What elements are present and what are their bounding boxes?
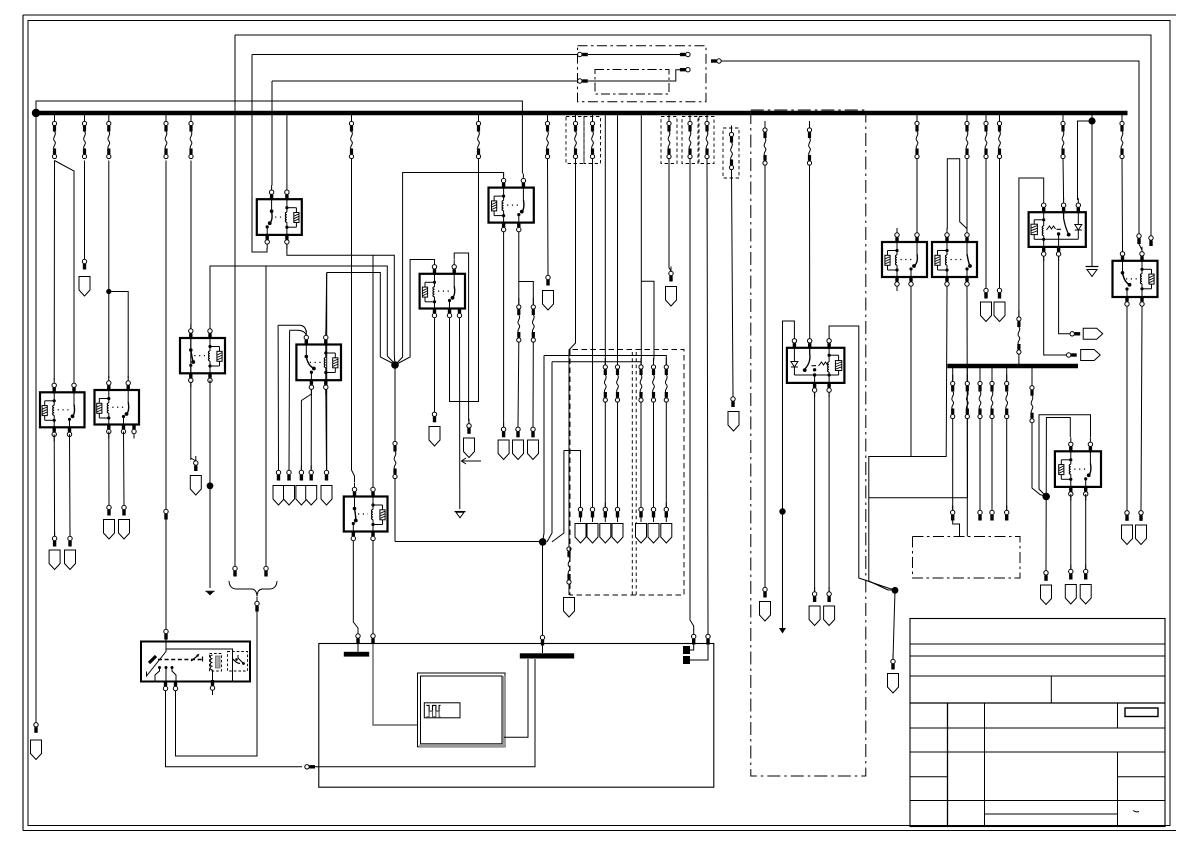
pin above connector SP6b [432,407,436,422]
fuse F17 [664,358,668,402]
connector shield SP5 [528,440,539,460]
connector shield SP12 [273,486,284,506]
connector shield SP7 [543,291,554,311]
wire relay K7 coil from bus via right channel [829,326,895,590]
junction node N2 [539,538,547,546]
outer border frame (no right edge) [23,14,1176,16]
wire W_E jog to relay K12 [1139,244,1142,252]
horizontal pin PR1 [1070,332,1080,336]
wire F13 down to cluster [592,159,594,508]
wire node N4 down to connector [893,590,895,659]
fuse F31 [966,368,968,382]
wire F36 to relay K12 [1121,159,1124,248]
wire from brace to module A1 [176,612,258,757]
wire net H3 bridge [327,273,381,358]
wire net W_E to right side [721,61,1139,234]
connector shield SP17 [564,598,575,618]
wire net W_C drop to relay K1 [271,81,273,186]
connector pin X12 feed [711,59,721,63]
pin above connector SP1 [82,255,86,270]
pin above SP14 [299,466,303,481]
branch wire to relay K3 pin 2 [109,292,128,379]
connector shield SP27 [824,606,835,626]
wire F14 to connector SP17 [568,584,570,595]
junction node N1 [391,361,399,369]
wire node N1 down with fuse F6 [394,365,396,442]
junction node N5 [1042,493,1050,501]
wire relay K14 out with branch [301,389,311,470]
pin above connector SP24c [731,392,735,407]
wire F22 down to connector [764,165,766,587]
wire relay K5 to node N3 and arrow [209,380,211,588]
connector shield SP24b [666,287,677,307]
wire bus drop x=605 [604,115,606,365]
wire tap down to connector SP12 [277,325,279,470]
wire net from node N2 region to F17 [544,356,666,366]
wire inside connector box [588,54,685,56]
splice pin on F4 wire [164,505,168,520]
connector shield SP11 [119,520,130,540]
wire relay K6 out2 to busbar [372,546,374,631]
fuse F29 [1017,310,1021,354]
wire F26 to connector SP29 [985,159,987,289]
wire leg from H1 to relay K6 [372,255,374,484]
arrow terminator on wire [779,628,786,634]
wire F18 down to connector [669,159,671,272]
connector shield SP23 [648,524,659,544]
dashed fuse holder FH1 [566,117,584,164]
bridge link for relay K9 feeds [947,159,967,229]
fuse F24 [915,115,919,159]
ECU right connector stub pins [683,646,690,654]
pin SP19 [590,503,594,518]
wire stub1 to top pin [690,644,694,650]
waveform icon box [424,703,460,718]
module A1 switch blade [149,656,156,663]
fuse F10 [476,115,480,159]
stub into dash-dot box [953,521,960,537]
module A1 coil sub-box dashed [210,654,222,672]
connector shield SP15 [306,486,317,506]
relay K10 bottom rail [1044,238,1079,240]
connector shield SP24 [661,524,672,544]
wire F19 to ECU pin [689,159,691,621]
module A1 switch sub-box dashed [228,652,248,672]
wire F3 down to relay K3 [108,161,110,379]
relay K7 bottom rail [794,374,829,376]
fuse F18 [667,115,671,159]
fuse F4 [164,115,168,159]
relay K14 [31,110,1166,827]
wire K11 out1 [1070,494,1072,569]
wire tap to relay K14 switch pin upper [278,325,306,332]
wire relay K2 out1 [53,434,55,536]
junction node N4 [892,587,899,594]
wire fuse to pin SP23 [653,402,655,507]
connector shield SP31 [1041,585,1052,605]
wire F25 to relay K9 [966,159,968,229]
connector shield SP32 [1065,585,1076,605]
fuse F6 [393,435,397,479]
relay K2 [40,392,85,427]
wire bus drop x=641 to fuse F15 [640,115,642,365]
dash-dot box D2 [913,537,1021,579]
bus node right [1088,117,1095,124]
connector pin X10b [680,52,690,56]
pin above connector SP3 [501,422,505,437]
wire net W_D y=101 from battery node [36,101,522,174]
fuse F30 [952,368,954,382]
connector shield SP6 [464,438,475,458]
relay K12 [31,117,1166,826]
dash-dot connector box CB1 inner [595,70,669,95]
wire fuse to pin SP24 [665,402,667,507]
wire H3 left leg to connector [326,273,328,471]
pin above SP15 [309,466,313,481]
splice pin above module A1 [164,625,168,640]
fuse F16 [651,358,655,402]
relay K13 [420,274,465,309]
arrow marker pointing left [462,460,481,462]
wire relay K6 out1 to busbar [353,546,358,632]
pin above connector SP7 [546,271,550,286]
wire F24 to relay K8 [916,159,918,229]
wire F12 down [569,159,576,548]
pin SP22 [639,503,643,518]
pin SP20 [603,503,607,518]
relay K10 switch [1064,212,1069,234]
module A1 dashed actuator line [158,659,204,661]
relay K4 output wire with tee [519,237,534,306]
busbar BB2 (thick) [520,653,574,658]
branch bridge to fuse F16 [641,281,654,361]
wire N5 loop inner to relay K11 [1046,418,1070,497]
relay K10 coil [1043,212,1045,220]
wire bar1 to inner unit [357,644,359,652]
fuse F9 [349,115,353,159]
relay K5 [31,110,1166,827]
relay K6 [31,110,1166,827]
module A1 arrow symbol [191,656,198,662]
wire K10 out2 to pentagon PR1 [1059,256,1070,334]
relay K11 [1055,451,1101,487]
wire net W_C y=81 [272,80,578,82]
wire F20 to ECU pin [707,159,708,632]
wire K7 out1 to connector [814,392,816,592]
fuse F1 [52,115,56,159]
relay K8 [882,242,927,277]
wire from F1 straight to relay K2 [53,161,55,381]
wire net W_B y=54.5 to connector [252,54,578,56]
fuse F5 [189,115,193,159]
dashed harness box H1 [570,350,684,596]
ECU box [319,644,714,788]
wire K12 out1 to connector [1126,311,1128,511]
fuse F23 [807,121,811,165]
wire from H2 branch down to brace [265,266,267,566]
pin on net W_E right end [1137,229,1141,244]
fuse F21 [729,126,733,170]
connector shield SP3 [498,440,509,460]
connector shield SP6b [429,427,440,447]
fuse F11 [545,115,549,159]
connector shield SP10 [104,520,115,540]
wire from F1 jog right branch [55,161,75,381]
wire inner unit to bar2 [504,659,528,737]
relay K7 thermal element [819,362,828,366]
dashed fuse holder FH5 [699,117,714,164]
pin above connector SP6 [467,419,471,434]
pin SP21 [615,503,619,518]
fuse F36 [1120,115,1124,159]
fuse F15 [639,358,643,402]
wire F23 to relay K7 [809,165,811,334]
wire relay K14 coil out to SP16 [325,389,328,470]
wire stub2 to top pin [690,644,708,660]
fuse F3 [107,115,111,159]
fuse F35 offset lower [1031,368,1033,386]
connector shield SP2 [190,476,201,496]
pin SP24 [664,503,668,518]
inner control unit double box [418,673,506,747]
wire K9 out1 staircase [869,291,947,590]
junction node on F3 wire [106,289,111,294]
dashed fuse holder FH4 [682,117,698,164]
fuse F37 [603,358,607,402]
wire F21 down to connector [732,170,734,397]
wire relay K3 out1 [108,432,110,506]
relay K7 special [787,348,845,383]
wire relay K3 out2 [123,432,126,506]
connector shield SP14 [296,486,307,506]
wire N5 loop outer to relay K11 [1039,415,1091,497]
connector pin X11b [680,68,690,72]
double dashed divider [631,352,633,595]
fuse F14 mid [567,540,571,584]
title block partial rows [910,776,948,778]
connector shield SP35 [1136,525,1147,545]
wire F10 U-turn into relay K13 [450,159,479,402]
dash-dot connector box CB1 outer [578,46,707,102]
wire F35 curves into node N5 [1032,423,1046,497]
connector shield SP24c [728,412,739,432]
ground symbol G1 [455,511,466,513]
busbar BB1 (thick) [344,652,369,657]
wire F27 to connector SP30 [999,159,1001,289]
connector pin X10a [578,52,588,56]
wire net W_B drop to relay K1 coil [252,55,267,253]
wire F11 down to connector SP7 [547,159,550,276]
pin above SP12 [276,466,280,481]
relay K4 output wire left pentagon [503,237,505,428]
wire F8 to connector SP5 [532,342,534,427]
wire K7 diode feed with node [783,321,795,628]
relay K10 special [1029,212,1086,247]
fuse F26 [984,115,988,159]
wire F33 to pin [991,419,993,511]
wire K11 out2 [1085,494,1087,569]
wire F34 to pin [1006,419,1008,511]
module A1 box [141,642,250,682]
fuse F13 [590,115,594,159]
module A1 internal bus [166,649,233,681]
connector shield SP25 [760,602,771,622]
fuse F33 [991,368,993,382]
relay K9 [932,242,977,277]
wire from W_A with pin to brace [233,562,237,577]
curly brace combiner [229,581,277,596]
wire net W_A horizontal y=35 [235,35,1151,236]
connector shield SP36 [31,740,42,760]
relay K10 thermal [1047,226,1056,230]
fuse F8 [531,298,535,342]
title block outer [910,619,1165,827]
wire relay K2 out2 [69,434,72,536]
rightward shield PR2 [1081,350,1101,361]
fuse F22 [763,121,767,165]
connector shield SP29 [981,302,992,322]
fuse F27 [997,115,1001,159]
pin above SP13 [287,466,291,481]
connector shield SP26 [809,606,820,626]
logo box [1125,708,1158,717]
connector shield SP1 [79,277,90,297]
wire fuse to pin SP22 [640,402,642,507]
pin above connector SP2 [194,456,198,471]
fuse F19 [688,115,692,159]
ground symbol G2 [1086,266,1099,268]
rightward shield PR1 [1083,328,1103,339]
wire battery node down left edge [35,117,37,722]
wire F4 down to splice [165,161,167,510]
wire K10 coil loop to fuse F29 [1019,178,1044,317]
wire F7 to connector SP4 [517,342,520,427]
connector shield SP8 [49,550,60,570]
dash-dot zone box Z1 [751,111,866,776]
connector shield SP21 [612,524,623,544]
wire K10 out1 to pentagon PR2 [1044,256,1067,355]
wire H3 leg to relay K14 coil [325,273,328,331]
pin above connector SP24b [669,267,673,282]
dashed fuse holder FH2 [584,117,601,164]
dashed fuse holder FH6 [723,128,739,178]
title block rows [910,643,1165,645]
wire H450 from node leg [564,451,581,508]
wire K12 out2 to connector [1141,311,1142,511]
node wire from N2 into bar2 [542,544,544,633]
wire net H2 from relay K5 to node N1 [210,266,387,356]
module A1 bottom pins [163,681,167,696]
pin above connector SP4 [516,422,520,437]
connector shield SP20 [600,524,611,544]
connector shield SP30 [994,302,1005,322]
wire K9 out2 staircase [869,291,968,498]
wire continues to bar2 [315,659,535,767]
fuse F28 [1061,115,1065,159]
horizontal pin PR2 [1067,353,1077,357]
wire module A1 to big box bar [166,691,303,767]
wire F9 down to relay K6 [352,159,355,483]
wire F2 down to connector [84,161,86,260]
pin above connector SP5 [531,422,535,437]
title block columns [947,703,949,827]
pin below brace [255,597,259,612]
wire from node N1 up to relay K4 coil [395,173,504,366]
relay K10 diode [1077,212,1079,224]
wire F28 to relay K10 [1062,159,1065,201]
pin SP23 [651,503,655,518]
wire tap down to connector SP13 [288,330,291,470]
waveform square wave glyph [426,705,440,711]
wire K7 out2 to connector [828,392,830,592]
connector shield SP19 [587,524,598,544]
pin above SP16 [324,466,328,481]
junction node N3 [207,482,214,489]
wire inside connector box lower [588,70,685,81]
wire relay K13 out1 to connector SP6b [434,322,436,413]
wire second net to cluster [552,361,641,363]
relay K3 [95,390,140,425]
wire F32 to pin [979,419,981,511]
connector shield SP28 [888,674,899,694]
wire node to relay K10 diode [1078,121,1093,200]
pin SP18 [578,503,582,518]
connector shield SP9 [65,550,76,570]
wire F29 to bus2 [1018,354,1020,364]
wire relay K13 pin to ground G1 [459,322,461,510]
relay K4 [489,188,534,223]
arrow terminator [206,590,215,592]
connector shield SP4 [513,440,524,460]
connector pin X11a [578,79,588,83]
connector shield SP22 [636,524,647,544]
wire bus drop to relay K1 coil [286,115,288,185]
fuse F25 [965,115,969,159]
inline pin on wire [305,765,315,769]
relay K7 coil [828,348,830,355]
wire tap to relay K14 switch pin lower [290,330,307,335]
power bus 2 (thick) [947,364,1078,368]
connector shield SP33 [1080,585,1091,605]
wires from cluster nets down to node N2 [543,356,544,542]
signature tick [1133,811,1139,812]
fuse F12 [573,115,577,159]
wire F31 into dash-dot box D2 [966,419,968,537]
wire from F6 to node N2 [395,541,540,543]
wire F30 to pin [952,419,954,511]
dashed fuse holder FH3 [661,117,677,164]
fuse F20 [705,115,709,159]
wire bus drop x=617 [617,115,619,365]
connector shield SP13 [284,486,295,506]
relay K7 switch [805,348,810,369]
fuse F32 [979,368,981,382]
relay K1 [31,110,1166,827]
junction node battery [32,109,40,117]
fuse F38 [615,358,619,402]
relay K1 output jog to net H1 [287,244,395,365]
wire K8 out to channel [910,291,912,457]
wire net W_A left drop to brace [234,35,236,566]
connector shield SP18 [575,524,586,544]
diagonal merges into node N1 [380,357,395,365]
wire node N1 to relay K13 coil [395,260,435,366]
connector shield SP34 [1122,525,1133,545]
wire F5 down to connector [190,161,192,331]
fuse F34 [1006,368,1008,382]
wire relay K13 switch loop to connector SP6 [454,253,469,424]
connector shield SP16 [321,486,332,506]
